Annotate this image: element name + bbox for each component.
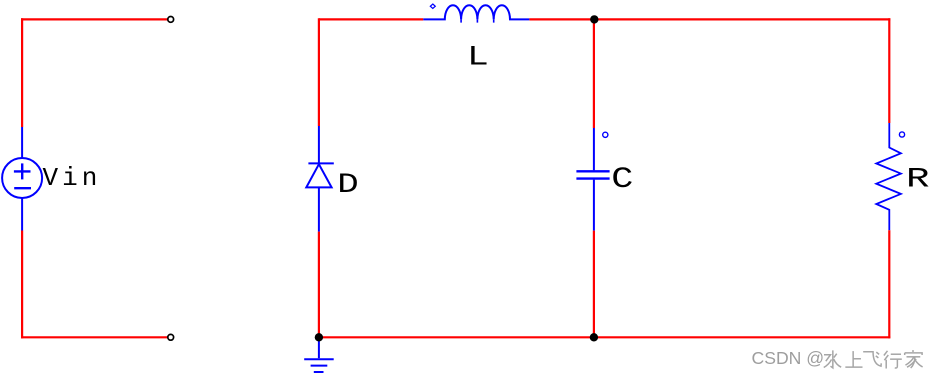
open terminal bottom-left — [168, 334, 174, 340]
wire Vin left vertical upper (red) — [21, 18, 23, 127]
marker diamond at inductor — [430, 4, 435, 9]
resistor R — [876, 123, 901, 230]
marker circle at resistor — [899, 132, 904, 137]
watermark char 水 — [824, 350, 841, 368]
wire diode branch lower (red) — [318, 232, 320, 339]
svg-text:C: C — [611, 163, 633, 197]
wire Vin loop bottom horizontal — [21, 336, 168, 338]
svg-text:R: R — [906, 164, 930, 195]
wire top segment middle (red, inductor to node) — [529, 18, 594, 20]
node junction dot bottom (capacitor) — [590, 333, 598, 341]
svg-text:Vin: Vin — [43, 163, 102, 193]
marker circle at capacitor — [603, 132, 608, 137]
svg-text:D: D — [337, 169, 358, 201]
node junction dot ground — [315, 333, 323, 341]
open terminal top-left — [168, 17, 174, 23]
svg-text:L: L — [467, 41, 489, 73]
wire diode branch upper (red) — [318, 18, 320, 126]
wire right vertical lower (red) — [888, 230, 890, 338]
wire top segment right (red, node to right corner) — [594, 18, 890, 20]
watermark char 上 — [845, 351, 862, 367]
wire capacitor branch upper (red) — [593, 19, 595, 128]
svg-text:CSDN @: CSDN @ — [752, 348, 825, 368]
watermark char 家 — [905, 350, 923, 368]
inductor L — [423, 5, 529, 19]
ground — [304, 337, 334, 372]
voltage source U Vin (circle with plus/minus) — [2, 127, 42, 231]
diode D — [306, 126, 334, 232]
wire top segment left (red, corner to inductor) — [319, 18, 423, 20]
capacitor C — [576, 128, 609, 231]
watermark char 飞 — [863, 352, 881, 366]
wire bottom left segment (red, ground node to cap node) — [319, 336, 594, 338]
wire capacitor branch lower (red) — [593, 231, 595, 339]
watermark char 行 — [884, 351, 902, 369]
wire Vin loop top horizontal — [21, 18, 168, 20]
node junction dot top (inductor/cap/load) — [590, 15, 598, 23]
wire right vertical upper (red) — [888, 18, 890, 123]
wire bottom right segment (red, cap node to right corner) — [594, 336, 890, 338]
inductor hump notches — [461, 19, 494, 22]
wire Vin left vertical lower (red) — [21, 231, 23, 339]
